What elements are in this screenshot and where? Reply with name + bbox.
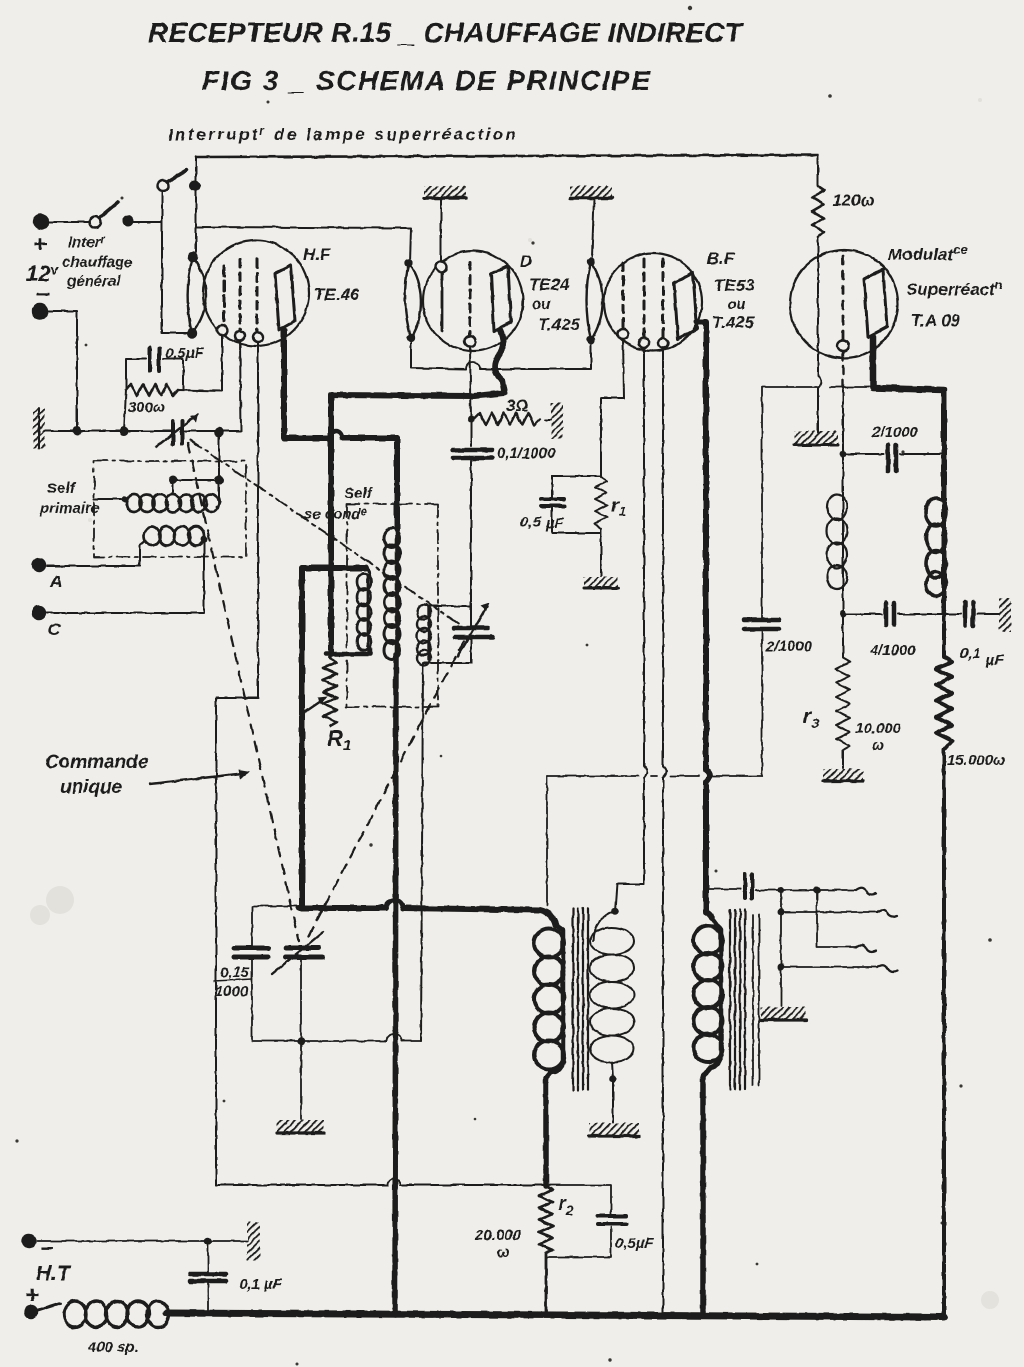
variable capacitor C-ant (trimmer) (156, 414, 198, 447)
coil self primaire (94, 498, 125, 500)
node 4/1000 junction (840, 611, 847, 618)
wire y568 bracket (302, 565, 366, 571)
tube HF filament (188, 257, 206, 333)
node switch bus 1 (778, 887, 785, 894)
fuse bar HT (247, 1222, 260, 1260)
ground r3 (823, 769, 863, 781)
svg-text:0,1: 0,1 (960, 645, 981, 662)
commande dashed link 3 (305, 641, 464, 943)
switch hook 2 (877, 910, 897, 917)
wire 0.5uF box (126, 359, 183, 390)
svg-text:0,5µF: 0,5µF (615, 1235, 654, 1252)
svg-text:2/1000: 2/1000 (871, 424, 919, 441)
wire coil to 4/1000 (842, 588, 844, 614)
tube D envelope (423, 251, 523, 351)
tube BF grid 2 (643, 259, 646, 337)
wire x302 thick drop (299, 568, 305, 906)
wire 4/1000 leads (843, 613, 944, 615)
svg-text:TE.46: TE.46 (314, 285, 360, 304)
transformer T1 primary (534, 929, 564, 1070)
bus y908 thick (299, 908, 556, 925)
wire varcap1 to node x219 (184, 342, 241, 431)
tube D grid pin (436, 262, 447, 273)
tube D anode thick drop (495, 330, 504, 390)
svg-text:−: − (40, 1236, 53, 1261)
svg-text:RECEPTEUR R.15 _ CHAUFFAGE I: RECEPTEUR R.15 _ CHAUFFAGE INDIRECT (148, 17, 746, 48)
svg-text:Self: Self (344, 485, 374, 502)
variable capacitor commande (272, 932, 323, 974)
svg-text:0,1 µF: 0,1 µF (239, 1276, 283, 1293)
tube BF anode (674, 273, 697, 339)
node coil tap left (170, 477, 177, 484)
tube HF TE.46 envelope (203, 240, 309, 346)
svg-text:FIG 3 _ SCHEMA DE PRINCIPE: FIG 3 _ SCHEMA DE PRINCIPE (202, 65, 654, 96)
svg-text:ω: ω (497, 1244, 510, 1261)
wire varcap3 to box bottom (300, 959, 302, 1041)
ground over BF tube (570, 186, 612, 198)
wire 0.1uF leads (944, 613, 999, 615)
wire 0.5uF bottom (552, 507, 601, 576)
tube modulatrice envelope (790, 250, 898, 358)
wire BF grid1 leak drop (601, 339, 624, 476)
ground left edge (33, 408, 45, 448)
node 300w-left junction (121, 428, 128, 435)
ground switch (761, 1007, 806, 1020)
wire HF anode thick (284, 330, 397, 438)
wire x162 down to HF filament bottom (162, 192, 188, 333)
resistor r1 (595, 477, 607, 529)
svg-text:10.000: 10.000 (855, 720, 902, 737)
wire x394 long thick drop (395, 655, 396, 1315)
tube D anode (491, 266, 511, 331)
switch lampe superreaction (158, 181, 169, 192)
wire HT minus (37, 1240, 247, 1242)
switch wire 4 (781, 890, 877, 967)
wire coil tap y480 (173, 480, 219, 492)
node lamp-switch contact (191, 182, 200, 191)
resistor 3ohm (474, 413, 540, 425)
svg-text:1000: 1000 (215, 983, 249, 1000)
svg-text:unique: unique (60, 777, 123, 798)
node chauffage-switch contact (124, 217, 133, 226)
tube HF anode (275, 265, 295, 330)
variable capacitor tuning 2 (454, 603, 493, 656)
svg-text:120ω: 120ω (832, 191, 875, 210)
svg-text:primaire: primaire (39, 500, 99, 517)
svg-text:4/1000: 4/1000 (869, 642, 917, 659)
resistor 300w (126, 384, 178, 396)
capacitor 4/1000 (886, 603, 894, 625)
capacitor 2/1000 mid (744, 620, 779, 629)
wire x944 thick (941, 390, 947, 500)
svg-text:T.425: T.425 (712, 313, 755, 332)
wire varcap2 bottom (424, 639, 471, 663)
wire ground to D grid pin (440, 198, 442, 262)
node switch bus 4 (778, 964, 785, 971)
transformer T2 core (730, 910, 745, 1089)
wire D grid2 pin down (470, 347, 471, 446)
wire top bus y155 (196, 155, 818, 157)
node HF filament top (189, 253, 197, 261)
tube BF grid 1 (622, 263, 625, 329)
svg-text:300ω: 300ω (128, 399, 166, 416)
wire 0.5uF BF top (552, 476, 601, 497)
wire heater top y227 to D tube (196, 227, 411, 263)
capacitor 2/1000 top (888, 445, 896, 471)
svg-text:ou: ou (727, 296, 745, 313)
svg-text:2/1000: 2/1000 (765, 638, 813, 655)
svg-text:µF: µF (985, 652, 1005, 669)
capacitor 0.5uF BF (541, 499, 564, 506)
svg-text:B.F: B.F (707, 249, 735, 268)
ground over D tube (424, 186, 466, 198)
wire mod grid lead (842, 352, 844, 390)
wire r2 cap branch (546, 1185, 611, 1257)
wire x547 drop (546, 776, 548, 906)
tube BF envelope (604, 253, 702, 351)
wire x471 cap to varcap2 (470, 461, 472, 628)
resistor r3 (836, 614, 850, 768)
switch hook 4 (877, 965, 897, 972)
svg-text:D: D (520, 252, 532, 271)
svg-text:ω: ω (872, 737, 885, 754)
svg-text:20.000: 20.000 (474, 1227, 522, 1244)
wire thick bus y395 (331, 395, 474, 438)
wire to switch ground (780, 967, 782, 1006)
transformer T1 core (573, 908, 588, 1090)
terminal A (32, 558, 46, 572)
transformer T2 secondary lines (753, 915, 759, 1085)
ground bar right of 3ohm (545, 403, 563, 439)
box self primaire dash-dot (94, 461, 246, 557)
node varcap bottom junction (297, 1037, 305, 1045)
wire y654 bracket (326, 648, 370, 654)
wire x331 down (328, 438, 334, 654)
node switch bus 3 (778, 909, 785, 916)
wire bus right drop to 120ohm (817, 155, 819, 186)
tube D grid 2 dashed (469, 262, 472, 335)
resistor R1 (323, 654, 337, 726)
capacitor 0.5uF bottom (598, 1216, 626, 1224)
svg-text:H.T: H.T (36, 1262, 72, 1285)
svg-text:général: général (66, 273, 121, 290)
coil reaction small (366, 568, 370, 576)
svg-text:0,15: 0,15 (220, 964, 250, 981)
node switch bus 2 (814, 887, 821, 894)
node HT filter junction (204, 1237, 212, 1245)
wire HF pin3 long drop (216, 342, 258, 1185)
transformer T2 primary (694, 926, 723, 1062)
node secondaire right (201, 536, 208, 543)
svg-text:chauffage: chauffage (62, 254, 133, 271)
svg-text:Superréactn: Superréactn (906, 277, 1003, 299)
svg-text:TE53: TE53 (714, 276, 755, 295)
wire 300w right to x222 pin (178, 335, 222, 391)
switch chauffage general (90, 217, 101, 228)
node HF filament bottom (188, 329, 196, 337)
ground bar right (999, 598, 1011, 632)
wire 120w down to ground (818, 237, 821, 433)
svg-text:+: + (33, 231, 47, 258)
bottom bus thick (166, 1313, 944, 1317)
switch hook 3 (856, 945, 876, 952)
wire ground to BF filament top (592, 198, 594, 257)
svg-text:TE24: TE24 (529, 275, 570, 294)
wire x397 self second top (394, 438, 400, 530)
svg-text:0,5µF: 0,5µF (165, 345, 204, 362)
wire y776 bias (547, 775, 762, 777)
tube D grid (441, 274, 444, 331)
ground under 120w (794, 431, 838, 445)
svg-text:3Ω: 3Ω (506, 396, 529, 415)
svg-text:H.F: H.F (303, 245, 331, 264)
wire bus to switch dot and heater feed x196 (195, 157, 197, 252)
node antenna-tap junction (215, 428, 223, 436)
svg-text:ou: ou (532, 296, 550, 313)
svg-text:C: C (48, 620, 61, 639)
svg-text:0,5: 0,5 (520, 514, 542, 531)
capacitor 0.1/1000 (453, 450, 492, 458)
wire 300w left down to y431 (124, 390, 126, 431)
wire BF pin2 drop (644, 348, 648, 884)
switch wire 3 (817, 890, 856, 947)
capacitor 0.1uF right (965, 602, 973, 626)
svg-text:Commande: Commande (45, 752, 149, 773)
capacitor switch coupling (706, 888, 741, 890)
arrow commande (150, 773, 246, 784)
node heater-return junction (74, 428, 81, 435)
coil self secondaire (384, 529, 400, 660)
wire x762 riser (762, 387, 873, 776)
terminal C (32, 606, 46, 620)
terminal +12v (34, 215, 48, 229)
ground mid bottom (277, 1120, 324, 1133)
resistor 120w (812, 186, 824, 237)
capacitor 0.5uF (HF) (150, 348, 159, 371)
node coil tap right (216, 477, 223, 484)
svg-text:Interr: Interr (68, 234, 106, 251)
node T1 secondary top (611, 907, 619, 915)
capacitor 0.1uF HT (190, 1274, 226, 1281)
wire 2/1000 leads (843, 453, 944, 455)
tube D filament (405, 263, 421, 338)
coil mod plate thick (926, 498, 946, 596)
wire r2 feed y1185 (216, 1184, 546, 1186)
wire C to coil2 right (47, 539, 204, 613)
switch hook 1 (856, 888, 876, 895)
svg-text:400 sp.: 400 sp. (87, 1339, 139, 1356)
tube HF grid 3 (256, 259, 259, 331)
wire to ground mid (300, 1041, 302, 1119)
tube mod anode (864, 269, 887, 337)
coil mod grid (842, 454, 844, 495)
node T1 secondary bottom (609, 1075, 617, 1083)
wire BF pin3 long drop (663, 348, 667, 1315)
wire HT cap drop (207, 1241, 209, 1313)
wire -12v down to y431 (48, 311, 77, 431)
box self secondaire dash-dot (346, 504, 438, 707)
node 3ohm junction dot (468, 416, 475, 423)
svg-text:se conde: se conde (304, 506, 367, 523)
arrow R1 (305, 699, 324, 712)
wire coil3 down to bus (421, 663, 423, 1041)
wire A (47, 565, 140, 567)
coil 400sp (64, 1301, 169, 1327)
switch bank wires (756, 889, 856, 891)
resistor r2 (539, 1186, 553, 1315)
terminal -12v (33, 304, 47, 318)
svg-text:A: A (49, 572, 62, 591)
svg-text:Self: Self (47, 480, 77, 497)
node mod-grid junction (840, 451, 847, 458)
tube BF filament (587, 262, 603, 340)
capacitor 0.15/1000 (234, 948, 268, 957)
wire coil2 left to A (140, 541, 145, 566)
tube BF grid 3 (662, 259, 665, 337)
tube HF grid 2 (239, 259, 242, 330)
wire +12v to switch (49, 221, 90, 223)
coil self primaire secondary (144, 527, 204, 546)
terminal HT minus (22, 1234, 36, 1248)
resistor 15000 thick (936, 614, 952, 1315)
tube HF electrode 1 (223, 266, 226, 325)
terminal HT plus (24, 1305, 38, 1319)
svg-text:T.425: T.425 (538, 315, 581, 334)
coil3 tuned (429, 605, 471, 607)
svg-text:T.A 09: T.A 09 (911, 311, 961, 330)
wire BF anode thick drop (697, 322, 712, 918)
commande dashed link 2 (190, 440, 462, 626)
wire heater y369 D to BF (411, 338, 591, 369)
node primaire left (122, 496, 129, 503)
wire switch to x162 (132, 221, 162, 223)
wire y431 ground to varcap1 (45, 430, 171, 432)
box bottom caps (252, 906, 421, 1041)
commande dashed link 1 (188, 443, 299, 941)
switch wire 2 (781, 911, 877, 913)
svg-text:15.000ω: 15.000ω (947, 752, 1006, 769)
svg-text:0,1/1000: 0,1/1000 (497, 445, 556, 462)
transformer T1 secondary (615, 884, 644, 911)
svg-text:−: − (36, 281, 50, 308)
tube mod anode thick drop (873, 337, 944, 390)
ground r1 (584, 577, 618, 588)
ground T1 secondary (589, 1123, 639, 1136)
tube mod grid dashed (842, 256, 845, 340)
wire x219 down to coil tap (218, 432, 220, 497)
svg-text:µF: µF (545, 515, 565, 532)
